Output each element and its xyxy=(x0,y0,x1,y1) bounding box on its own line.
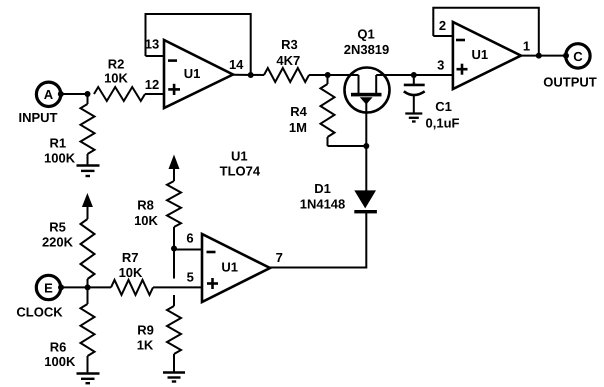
resistor R4 xyxy=(289,75,335,146)
resistor R9 xyxy=(137,295,181,372)
ground R1 xyxy=(77,166,100,177)
svg-text:1M: 1M xyxy=(289,120,307,135)
svg-text:INPUT: INPUT xyxy=(19,110,58,125)
node E xyxy=(36,275,64,299)
ground R9 xyxy=(163,373,185,382)
node C xyxy=(563,44,590,68)
svg-text:R2: R2 xyxy=(108,57,125,72)
ground C1 xyxy=(405,114,422,122)
wire R2 to pin 12 xyxy=(145,93,164,95)
node junction E/R5/R6/R7 xyxy=(85,284,91,290)
node junction R8/pin6 xyxy=(171,246,177,252)
node junction R3/R4/Q1 xyxy=(325,72,331,78)
diode D1 xyxy=(300,181,377,213)
wire crossover R8 to R9 (no connection) xyxy=(173,249,175,279)
pin 2 xyxy=(433,18,453,36)
svg-text:10K: 10K xyxy=(134,213,158,228)
svg-text:5: 5 xyxy=(187,270,194,285)
svg-text:4K7: 4K7 xyxy=(276,53,300,68)
svg-text:R8: R8 xyxy=(137,198,154,213)
wire A to junction xyxy=(61,93,88,95)
wire R3 to Q1 xyxy=(309,74,359,76)
svg-text:U1: U1 xyxy=(231,149,248,164)
svg-text:CLOCK: CLOCK xyxy=(16,305,63,320)
resistor R8 xyxy=(134,167,181,249)
wire Q1 to C1 junction xyxy=(376,74,453,76)
node junction A/R1/R2 xyxy=(85,91,91,97)
svg-text:6: 6 xyxy=(186,230,193,245)
pin 6 stub xyxy=(174,230,202,249)
svg-text:Q1: Q1 xyxy=(357,27,374,42)
pin 13 xyxy=(145,36,164,56)
svg-text:10K: 10K xyxy=(119,265,143,280)
op-amp U1 (second) xyxy=(453,22,521,89)
wire op-amp2 output xyxy=(521,55,566,57)
transistor Q1 xyxy=(344,27,390,113)
supply arrow R5 xyxy=(82,193,93,207)
feedback wire op-amp2 xyxy=(433,8,539,56)
svg-text:100K: 100K xyxy=(44,151,76,166)
wire Q1 gate down to D1 xyxy=(365,100,367,191)
svg-text:E: E xyxy=(44,280,53,295)
resistor R7 xyxy=(88,250,153,295)
U1 package label xyxy=(220,149,261,179)
wire R7 to pin 5 xyxy=(153,286,202,288)
node junction output/feedback xyxy=(536,53,542,59)
op-amp U1 (third) xyxy=(202,234,270,302)
svg-text:D1: D1 xyxy=(314,181,331,196)
svg-text:U1: U1 xyxy=(221,260,238,275)
svg-text:U1: U1 xyxy=(184,66,201,81)
svg-text:220K: 220K xyxy=(42,234,74,249)
node junction C1 xyxy=(411,72,417,78)
svg-text:R7: R7 xyxy=(122,250,139,265)
node A xyxy=(36,82,63,106)
svg-text:10K: 10K xyxy=(104,71,128,86)
svg-text:12: 12 xyxy=(145,77,159,92)
resistor R5 xyxy=(42,205,95,287)
svg-text:3: 3 xyxy=(437,57,444,72)
svg-text:C: C xyxy=(573,49,583,64)
svg-text:C1: C1 xyxy=(435,99,452,114)
svg-text:U1: U1 xyxy=(471,47,488,62)
svg-text:TLO74: TLO74 xyxy=(220,163,261,178)
op-amp U1 (first) xyxy=(164,40,233,108)
svg-text:R1: R1 xyxy=(49,136,66,151)
wire D1 to op-amp3 output xyxy=(270,213,366,268)
svg-text:1K: 1K xyxy=(137,338,154,353)
svg-text:1: 1 xyxy=(523,39,530,54)
node junction R4/gate/D1 xyxy=(363,143,369,149)
supply arrow R8 xyxy=(169,155,180,170)
svg-text:13: 13 xyxy=(145,36,159,51)
svg-text:R4: R4 xyxy=(290,104,307,119)
resistor R3 xyxy=(264,37,309,82)
feedback wire op-amp1 xyxy=(146,14,251,75)
svg-text:R5: R5 xyxy=(49,220,66,235)
svg-text:R3: R3 xyxy=(281,37,298,52)
svg-text:7: 7 xyxy=(276,250,283,265)
svg-text:2: 2 xyxy=(439,18,446,33)
svg-text:OUTPUT: OUTPUT xyxy=(543,75,597,90)
svg-text:1N4148: 1N4148 xyxy=(300,197,346,212)
ground R6 xyxy=(77,374,100,384)
svg-text:A: A xyxy=(44,87,54,102)
wire E to junction xyxy=(61,286,88,288)
svg-text:2N3819: 2N3819 xyxy=(344,42,390,57)
capacitor C1 xyxy=(404,75,460,131)
resistor R2 xyxy=(94,57,145,102)
wire R4 bottom to gate node xyxy=(328,145,367,147)
wire op-amp1 output xyxy=(233,74,264,76)
resistor R6 xyxy=(44,287,94,372)
svg-text:R9: R9 xyxy=(137,322,154,337)
node junction output/R3 xyxy=(248,72,254,78)
svg-text:R6: R6 xyxy=(50,340,67,355)
svg-text:100K: 100K xyxy=(44,354,76,369)
svg-text:14: 14 xyxy=(229,57,244,72)
svg-text:0,1uF: 0,1uF xyxy=(426,116,460,131)
resistor R1 xyxy=(44,94,94,166)
